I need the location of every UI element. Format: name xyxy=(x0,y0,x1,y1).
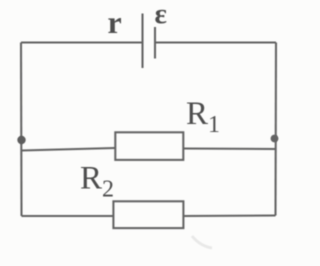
wire middle-right segment (from R1) xyxy=(183,147,276,150)
label R2 xyxy=(80,161,114,203)
battery cell E,r : short plate xyxy=(154,27,156,59)
battery cell E,r : long plate xyxy=(141,14,143,69)
wire middle-left segment (to R1) xyxy=(22,148,116,151)
wire top-right segment xyxy=(155,41,276,43)
label R1 xyxy=(186,96,220,138)
svg-text:R1: R1 xyxy=(186,96,220,138)
svg-text:ε: ε xyxy=(155,0,167,30)
wire bottom-left segment xyxy=(22,215,114,217)
node left junction xyxy=(17,136,25,144)
wire left vertical xyxy=(20,43,23,217)
wire right vertical xyxy=(274,43,277,216)
label epsilon (EMF) xyxy=(155,0,167,30)
svg-text:R2: R2 xyxy=(80,161,114,203)
svg-text:r: r xyxy=(108,4,122,40)
resistor R1 (box) xyxy=(115,132,183,160)
node right junction xyxy=(271,135,279,143)
wire bottom-right segment xyxy=(184,214,276,217)
wire top-left segment xyxy=(21,41,142,43)
resistor R2 (box) xyxy=(113,201,183,228)
label r (internal resistance) xyxy=(108,4,122,40)
